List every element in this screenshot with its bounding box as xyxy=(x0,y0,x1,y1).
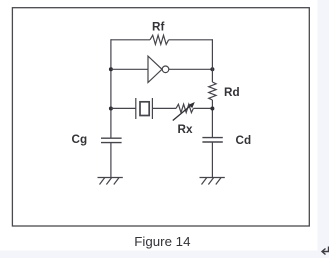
wire crystal to Rx xyxy=(152,107,176,109)
svg-text:Rd: Rd xyxy=(224,86,240,99)
svg-text:Rf: Rf xyxy=(152,20,164,33)
wire Rx to right rail xyxy=(193,107,212,109)
wire left rail lower xyxy=(110,143,112,178)
node inverter input junction xyxy=(109,67,113,71)
svg-text:Rx: Rx xyxy=(178,123,193,136)
ground right xyxy=(200,178,225,185)
crystal X1 xyxy=(136,98,153,119)
svg-text:Cd: Cd xyxy=(236,134,252,147)
svg-text:Cg: Cg xyxy=(72,133,88,146)
wire top rail right segment xyxy=(169,39,213,41)
resistor Rf xyxy=(150,35,169,44)
wire right rail top xyxy=(211,39,213,82)
wire inverter output xyxy=(169,68,213,70)
capacitor Cg xyxy=(101,138,122,142)
node crystal branch right junction xyxy=(210,107,214,111)
svg-text:Figure 14: Figure 14 xyxy=(134,234,190,249)
node inverter output junction xyxy=(210,67,214,71)
ground left xyxy=(98,178,123,185)
trimmer resistor Rx xyxy=(173,102,195,121)
resistor Rd xyxy=(209,82,216,100)
wire top rail left segment xyxy=(111,39,150,41)
wire left rail upper xyxy=(110,39,112,138)
paragraph return mark xyxy=(322,247,329,255)
wire right rail middle xyxy=(211,100,213,138)
wire crystal branch left xyxy=(111,107,136,109)
capacitor Cd xyxy=(202,138,222,142)
wire inverter input xyxy=(111,68,148,70)
inverter U1 xyxy=(148,56,169,82)
wire right rail lower xyxy=(211,142,213,178)
node crystal branch left junction xyxy=(109,107,113,111)
